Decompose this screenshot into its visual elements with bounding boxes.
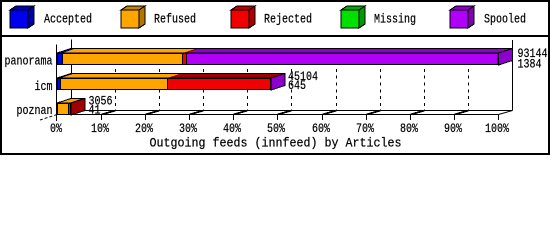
bar panorama: end cap — [499, 49, 513, 66]
svg-text:poznan: poznan — [17, 103, 53, 118]
svg-text:80%: 80% — [400, 122, 418, 136]
svg-text:0%: 0% — [50, 122, 62, 136]
front axis line — [57, 114, 499, 116]
svg-text:icm: icm — [35, 79, 53, 94]
back floor line — [57, 110, 513, 112]
legend cube Spooled (purple) — [450, 6, 474, 28]
floor slant ticks — [102, 111, 469, 115]
svg-text:50%: 50% — [267, 122, 285, 136]
x axis labels — [50, 122, 509, 136]
svg-text:Rejected: Rejected — [264, 12, 312, 27]
svg-text:41: 41 — [89, 103, 101, 118]
svg-text:Missing: Missing — [374, 12, 416, 27]
svg-text:10%: 10% — [91, 122, 109, 136]
front axis ticks — [102, 115, 499, 121]
outer border frame — [1, 1, 549, 154]
bar icm: top face — [57, 74, 285, 79]
legend cube Rejected (red) — [231, 6, 255, 28]
bar poznan: top face — [57, 99, 85, 104]
bar poznan: front face — [57, 103, 71, 115]
svg-text:100%: 100% — [485, 122, 509, 136]
bar icm: front face — [57, 78, 271, 90]
svg-text:30%: 30% — [179, 122, 197, 136]
svg-text:20%: 20% — [135, 122, 153, 136]
left dashed slant below origin — [40, 115, 57, 121]
svg-text:70%: 70% — [356, 122, 374, 136]
legend cube Accepted (blue) — [10, 6, 34, 28]
legend cube Missing (green) — [341, 6, 365, 28]
svg-text:60%: 60% — [312, 122, 330, 136]
bar panorama: top face — [57, 49, 513, 54]
bar panorama: front face — [57, 53, 499, 65]
bar icm: end cap — [271, 74, 285, 91]
svg-text:40%: 40% — [223, 122, 241, 136]
back wall left edge (0% back, solid) — [71, 40, 73, 111]
svg-text:Refused: Refused — [154, 12, 196, 27]
svg-text:90%: 90% — [444, 122, 462, 136]
bar poznan: end cap — [71, 99, 85, 116]
y-axis line — [56, 45, 58, 122]
svg-text:645: 645 — [288, 78, 306, 93]
legend separator line — [2, 35, 548, 37]
right wall line (100% back) — [512, 40, 514, 111]
svg-text:panorama: panorama — [5, 54, 53, 69]
svg-text:Spooled: Spooled — [484, 12, 526, 27]
right floor slant — [499, 111, 513, 115]
svg-text:1384: 1384 — [518, 57, 542, 72]
svg-text:Accepted: Accepted — [44, 12, 92, 27]
legend cube Refused (orange) — [121, 6, 145, 28]
svg-text:Outgoing feeds (innfeed) by Ar: Outgoing feeds (innfeed) by Articles — [150, 136, 402, 151]
